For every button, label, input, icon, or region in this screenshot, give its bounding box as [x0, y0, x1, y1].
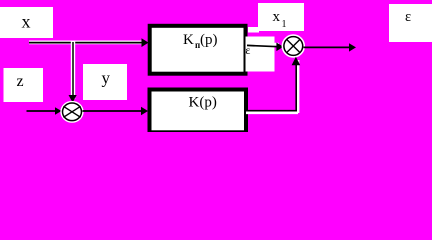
svg-text:K: K — [183, 32, 194, 48]
svg-text:(p): (p) — [200, 32, 218, 48]
arrowhead into summer S1 left — [55, 107, 62, 114]
control-system block diagram — [0, 0, 432, 132]
arrowhead into summer S1 top — [69, 95, 77, 103]
wire summer S1 to block K — [83, 110, 144, 112]
arrowhead into summer S2 left — [276, 43, 283, 52]
svg-text:1: 1 — [282, 19, 287, 30]
svg-text:x: x — [22, 12, 31, 32]
node x label box — [0, 7, 53, 38]
svg-text:K(p): K(p) — [189, 95, 217, 111]
svg-text:ε: ε — [405, 9, 411, 25]
summer S2 (right crossed circle) — [282, 35, 304, 57]
wire feedback vertical up to summer S2 — [296, 60, 299, 113]
node epsilon output label box — [389, 4, 432, 42]
node z label box — [4, 68, 44, 102]
wire block Kp output to summer S2 — [258, 42, 279, 46]
svg-text:y: y — [102, 69, 111, 88]
arrowhead into summer S2 bottom — [292, 57, 301, 65]
block K (plant K(p)) — [150, 90, 247, 133]
wire branch vertical to summer S1 — [71, 41, 75, 99]
arrowhead into block Kp — [142, 38, 149, 47]
wire x input horizontal — [29, 41, 145, 45]
node y label box — [83, 64, 127, 100]
arrowhead output — [349, 43, 356, 51]
svg-text:z: z — [16, 73, 23, 90]
wire output from summer S2 — [304, 46, 351, 48]
summer S1 (left crossed circle) — [61, 102, 83, 122]
wire feedback from block K: horizontal — [246, 111, 298, 114]
wire z input — [27, 110, 57, 112]
node x1 label box — [258, 3, 304, 31]
svg-text:x: x — [273, 9, 281, 25]
block Kp (controller Kn(p)) — [150, 26, 246, 74]
node epsilon small label box — [248, 27, 259, 33]
arrowhead into block K — [141, 107, 148, 115]
